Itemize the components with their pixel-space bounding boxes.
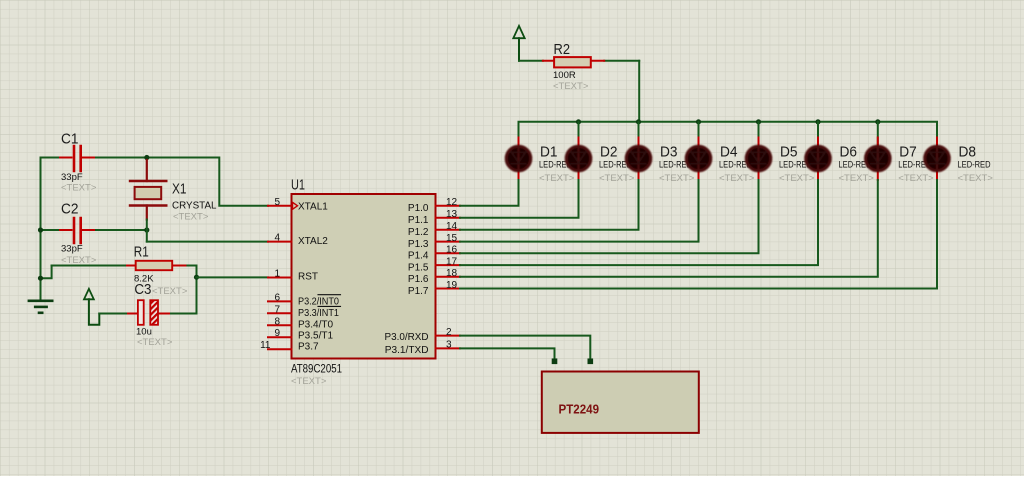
pin 4 XTAL2 xyxy=(268,233,328,248)
power terminal arrow (R2) xyxy=(513,26,524,61)
ic PT2249 xyxy=(542,372,699,433)
svg-text:10u: 10u xyxy=(136,327,152,338)
svg-text:P1.3: P1.3 xyxy=(408,239,429,250)
svg-text:R1: R1 xyxy=(134,243,149,260)
svg-text:19: 19 xyxy=(446,280,458,291)
LED D8 xyxy=(925,138,994,185)
svg-text:D2: D2 xyxy=(600,144,618,161)
pin 5 XTAL1 xyxy=(268,197,328,213)
svg-text:6: 6 xyxy=(274,292,280,303)
svg-text:12: 12 xyxy=(446,197,458,208)
svg-text:100R: 100R xyxy=(553,70,576,81)
pin 18 P1.6 xyxy=(408,268,460,285)
LED D2 xyxy=(566,138,635,185)
svg-text:CRYSTAL: CRYSTAL xyxy=(172,201,217,212)
wire left rail xyxy=(40,158,42,301)
svg-text:D6: D6 xyxy=(840,144,858,161)
svg-text:16: 16 xyxy=(446,245,458,256)
resistor R2 xyxy=(519,41,639,92)
svg-text:X1: X1 xyxy=(172,181,187,198)
LED D4 xyxy=(686,138,755,185)
svg-text:D4: D4 xyxy=(720,144,738,161)
svg-text:<TEXT>: <TEXT> xyxy=(958,173,994,184)
svg-text:P1.6: P1.6 xyxy=(408,274,429,285)
svg-text:33pF: 33pF xyxy=(61,244,83,255)
LED D3 xyxy=(626,138,695,185)
svg-text:<TEXT>: <TEXT> xyxy=(152,286,188,297)
svg-text:P1.0: P1.0 xyxy=(408,203,429,214)
wire bus drop D2 xyxy=(578,122,580,147)
ground xyxy=(29,301,52,313)
node bus junction D7 xyxy=(875,119,880,124)
svg-text:15: 15 xyxy=(446,233,458,244)
resistor R1 xyxy=(52,243,197,297)
svg-text:<TEXT>: <TEXT> xyxy=(659,173,695,184)
svg-text:LED-RED: LED-RED xyxy=(958,160,991,171)
wire bus drop D6 xyxy=(817,122,819,147)
pin 2 P3.0/RXD xyxy=(385,327,461,343)
wire D3 cathode to P1.2 xyxy=(460,180,639,230)
svg-text:C1: C1 xyxy=(61,131,79,148)
wire D7 cathode to P1.6 xyxy=(460,180,878,277)
wire LED anode bus xyxy=(519,122,938,147)
svg-text:5: 5 xyxy=(274,197,280,208)
node bus junction D3 xyxy=(636,119,641,124)
node rail-C2 junction xyxy=(38,227,43,232)
svg-text:D1: D1 xyxy=(540,144,558,161)
node RXD terminal square xyxy=(588,359,594,365)
svg-text:D8: D8 xyxy=(959,144,977,161)
pin 13 P1.1 xyxy=(408,209,460,226)
pin 17 P1.5 xyxy=(408,257,460,274)
wire D8 cathode to P1.7 xyxy=(460,180,937,289)
svg-text:8: 8 xyxy=(274,316,280,327)
node C2-X1 junction xyxy=(144,227,149,232)
svg-text:C3: C3 xyxy=(134,281,151,298)
power terminal arrow (C3) xyxy=(84,289,99,325)
wire D4 cathode to P1.3 xyxy=(460,180,699,242)
capacitor C3 xyxy=(99,281,173,348)
svg-text:9: 9 xyxy=(274,328,280,339)
pin 7 P3.3/INT1 xyxy=(268,304,341,319)
node bus junction D5 xyxy=(756,119,761,124)
wire D1 cathode to P1.0 xyxy=(460,180,519,206)
svg-text:<TEXT>: <TEXT> xyxy=(898,173,934,184)
svg-text:XTAL1: XTAL1 xyxy=(298,202,328,213)
wire C1 to XTAL1 xyxy=(96,158,268,206)
node C1-X1 junction xyxy=(144,155,149,160)
svg-text:<TEXT>: <TEXT> xyxy=(61,255,97,266)
svg-text:<TEXT>: <TEXT> xyxy=(61,183,97,194)
wire P3.0/RXD to terminal xyxy=(460,336,590,359)
svg-text:11: 11 xyxy=(260,340,271,351)
svg-text:1: 1 xyxy=(274,269,280,280)
pin 8 P3.4/T0 xyxy=(268,316,333,330)
pin 19 P1.7 xyxy=(408,280,460,297)
svg-text:<TEXT>: <TEXT> xyxy=(553,81,589,92)
svg-text:<TEXT>: <TEXT> xyxy=(599,173,635,184)
svg-text:7: 7 xyxy=(274,304,280,315)
svg-text:P1.2: P1.2 xyxy=(408,227,429,238)
pin 3 P3.1/TXD xyxy=(385,340,460,356)
svg-text:P1.1: P1.1 xyxy=(408,215,429,226)
ic U1 AT89C2051 xyxy=(291,177,436,388)
pin 15 P1.3 xyxy=(408,233,460,250)
pin 14 P1.2 xyxy=(408,221,460,238)
wire C2 to crystal xyxy=(96,229,147,231)
pin 9 P3.5/T1 xyxy=(268,328,333,341)
svg-text:<TEXT>: <TEXT> xyxy=(719,173,755,184)
wire bus drop D4 xyxy=(698,122,700,147)
svg-text:<TEXT>: <TEXT> xyxy=(779,173,815,184)
svg-text:P3.3/INT1: P3.3/INT1 xyxy=(298,308,339,319)
node TXD terminal square xyxy=(552,359,558,365)
svg-text:13: 13 xyxy=(446,209,458,220)
svg-text:<TEXT>: <TEXT> xyxy=(839,173,875,184)
svg-text:2: 2 xyxy=(446,327,452,338)
svg-text:U1: U1 xyxy=(291,177,305,194)
svg-text:C2: C2 xyxy=(61,201,79,218)
node bus junction D2 xyxy=(576,119,581,124)
crystal X1 xyxy=(130,160,217,242)
svg-text:RST: RST xyxy=(298,271,318,282)
wire R1 right / RST vertical xyxy=(196,266,198,314)
LED D7 xyxy=(866,138,935,185)
LED D6 xyxy=(806,138,875,185)
pin 11 P3.7 xyxy=(260,340,319,352)
wire D5 cathode to P1.4 xyxy=(460,180,759,253)
wire D6 cathode to P1.5 xyxy=(460,180,818,265)
node RST junction xyxy=(194,275,199,280)
node rail-ground junction xyxy=(38,276,43,281)
wire D2 cathode to P1.1 xyxy=(460,180,579,218)
svg-text:<TEXT>: <TEXT> xyxy=(137,337,173,348)
wire bus drop D5 xyxy=(758,122,760,147)
svg-text:P3.0/RXD: P3.0/RXD xyxy=(385,332,429,343)
wire crystal to XTAL2 xyxy=(147,241,268,243)
wire R1 left to ground rail xyxy=(41,266,52,279)
wire R2 to LED bus xyxy=(638,61,640,122)
wire RST to U1 xyxy=(197,276,269,278)
wire C3 to RST vertical xyxy=(171,313,197,315)
svg-text:P3.1/TXD: P3.1/TXD xyxy=(385,345,429,356)
svg-text:<TEXT>: <TEXT> xyxy=(539,173,575,184)
svg-text:D7: D7 xyxy=(899,144,917,161)
capacitor C1 xyxy=(41,131,97,194)
capacitor C2 xyxy=(41,201,97,267)
LED D5 xyxy=(746,138,815,185)
svg-text:XTAL2: XTAL2 xyxy=(298,236,328,247)
svg-text:<TEXT>: <TEXT> xyxy=(291,376,327,387)
svg-text:4: 4 xyxy=(274,233,280,244)
svg-text:D3: D3 xyxy=(660,144,678,161)
pin 1 RST xyxy=(268,269,318,283)
svg-text:14: 14 xyxy=(446,221,458,232)
wire bus drop D7 xyxy=(877,122,879,147)
svg-text:PT2249: PT2249 xyxy=(559,403,600,417)
svg-text:<TEXT>: <TEXT> xyxy=(173,212,209,223)
pin 12 P1.0 xyxy=(408,197,460,214)
node bus junction D4 xyxy=(696,119,701,124)
svg-text:33pF: 33pF xyxy=(61,172,83,183)
pin 16 P1.4 xyxy=(408,245,460,262)
svg-text:AT89C2051: AT89C2051 xyxy=(291,364,342,376)
svg-text:P3.4/T0: P3.4/T0 xyxy=(298,319,333,330)
svg-text:18: 18 xyxy=(446,268,458,279)
svg-text:P1.4: P1.4 xyxy=(408,251,429,262)
svg-text:17: 17 xyxy=(446,257,458,268)
svg-text:3: 3 xyxy=(446,340,452,351)
svg-text:P1.5: P1.5 xyxy=(408,262,429,273)
svg-text:P1.7: P1.7 xyxy=(408,286,429,297)
node bus junction D6 xyxy=(815,119,820,124)
pin 6 P3.2/INT0 xyxy=(268,292,341,307)
svg-text:P3.7: P3.7 xyxy=(298,342,319,353)
wire bus drop D3 xyxy=(638,122,640,147)
LED D1 xyxy=(506,138,575,185)
svg-text:R2: R2 xyxy=(554,41,571,58)
wire P3.1/TXD to terminal xyxy=(460,348,555,358)
svg-text:P3.5/T1: P3.5/T1 xyxy=(298,330,333,341)
svg-text:D5: D5 xyxy=(780,144,798,161)
